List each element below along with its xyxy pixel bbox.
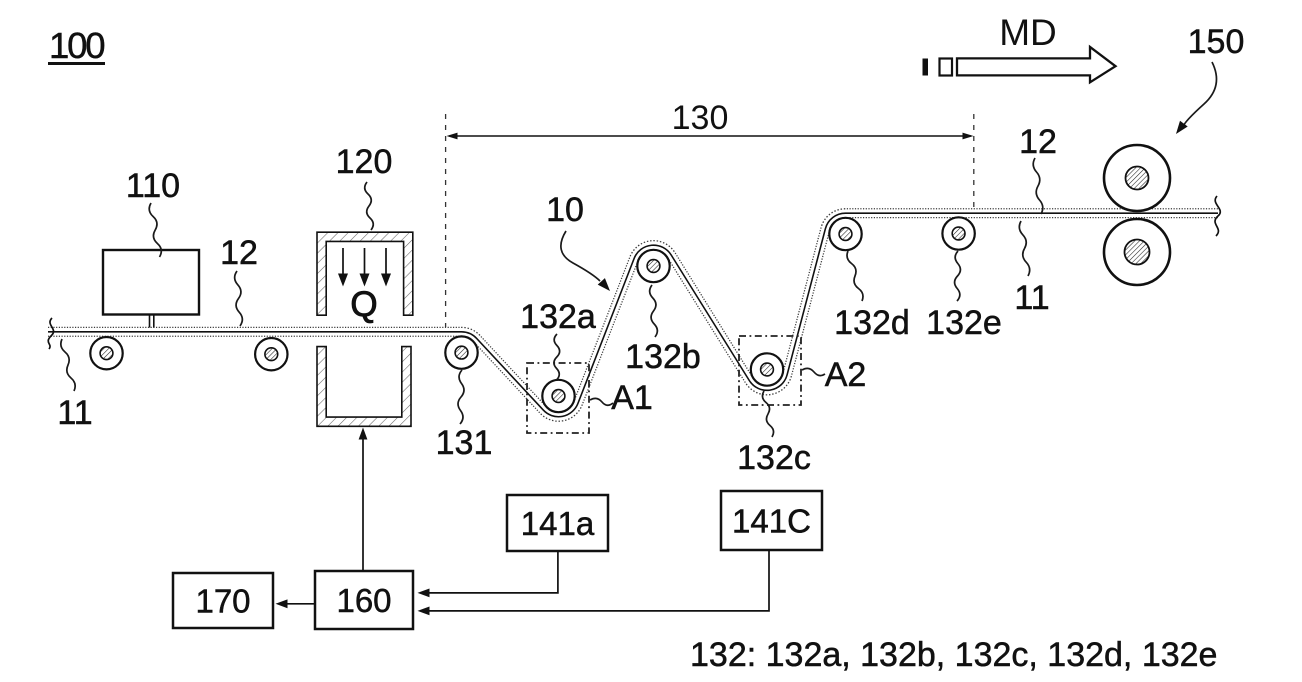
svg-text:120: 120 [336,143,393,181]
svg-text:132e: 132e [926,304,1002,342]
svg-text:130: 130 [672,99,729,137]
svg-text:150: 150 [1188,23,1245,61]
svg-text:10: 10 [546,191,584,229]
svg-text:132: 132a, 132b, 132c, 132d, 1: 132: 132a, 132b, 132c, 132d, 132e [690,636,1217,674]
svg-text:MD: MD [999,12,1057,53]
svg-text:12: 12 [220,234,258,272]
svg-text:11: 11 [57,394,92,432]
svg-text:132c: 132c [737,439,811,477]
svg-text:132d: 132d [834,304,910,342]
svg-text:12: 12 [1019,123,1057,161]
svg-text:170: 170 [195,583,250,620]
svg-text:11: 11 [1014,279,1049,317]
svg-text:100: 100 [49,25,104,66]
svg-text:160: 160 [336,582,391,619]
svg-text:141C: 141C [732,503,811,540]
svg-text:132a: 132a [520,298,596,336]
svg-text:A2: A2 [825,356,867,394]
svg-text:110: 110 [126,167,180,205]
svg-text:A1: A1 [611,379,653,417]
svg-text:Q: Q [350,285,377,324]
svg-text:132b: 132b [625,338,701,376]
svg-text:131: 131 [436,424,493,462]
svg-text:141a: 141a [521,505,595,542]
